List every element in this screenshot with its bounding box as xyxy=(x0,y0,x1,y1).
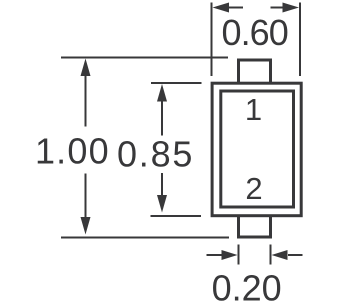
svg-text:2: 2 xyxy=(245,171,262,206)
svg-text:0.20: 0.20 xyxy=(212,268,282,306)
svg-text:1: 1 xyxy=(245,92,262,127)
svg-text:1.00: 1.00 xyxy=(35,130,110,171)
svg-text:0.85: 0.85 xyxy=(117,133,194,174)
svg-text:0.60: 0.60 xyxy=(221,12,287,53)
